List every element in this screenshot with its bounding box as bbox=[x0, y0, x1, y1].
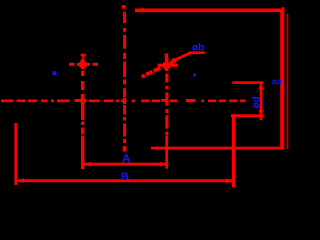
wire vertical line x=166.7 bbox=[165, 54, 169, 169]
wire dimension line A (y=163.3) bbox=[84, 163, 167, 166]
svg-text:B: B bbox=[121, 171, 129, 183]
wire thin vertical extension line bbox=[287, 14, 289, 150]
wire leader diagonal line bbox=[172, 52, 191, 63]
wire dim B right arrowhead bbox=[226, 178, 233, 183]
svg-text:aa: aa bbox=[272, 76, 283, 86]
wire dim A left arrowhead bbox=[84, 162, 91, 167]
wire extension line x=233 bbox=[232, 114, 236, 187]
wire leader shoulder bbox=[189, 51, 205, 54]
svg-text:A: A bbox=[122, 151, 131, 165]
wire diagonal dash-dot radial line bbox=[141, 66, 161, 78]
wire mid-right horizontal line bbox=[151, 147, 284, 150]
node tiny label mid bbox=[193, 74, 196, 77]
wire right vertical thick line bbox=[280, 9, 284, 149]
wire bracket top horizontal bbox=[232, 81, 263, 84]
wire top-left arrowhead bbox=[134, 8, 143, 12]
wire leader arrowhead at hole bbox=[168, 57, 177, 65]
wire dim B left arrowhead bbox=[17, 178, 24, 183]
svg-text:øb: øb bbox=[192, 43, 204, 54]
wire vertical dim up arrowhead bbox=[258, 82, 263, 90]
node hole center cross left (82.5,64.5) bbox=[69, 62, 98, 68]
wire bracket bottom horizontal bbox=[231, 114, 263, 117]
wire dimension line B (y=180.6) bbox=[17, 179, 232, 182]
wire top dimension line bbox=[135, 9, 284, 13]
wire extension line far-left x=15.8 bbox=[14, 123, 17, 185]
node tiny label left bbox=[53, 71, 57, 75]
wire mid-right horizontal left arrowhead bbox=[150, 146, 158, 150]
wire vertical line x=82.5 bbox=[81, 54, 86, 169]
node horizontal centerline y=100.6 bbox=[1, 99, 246, 102]
wire vertical dim down arrowhead bbox=[258, 110, 263, 116]
wire vertical dimension line x=261 bbox=[260, 81, 263, 120]
node hole center cross right (166.8,65.5) bbox=[158, 62, 179, 68]
node vertical centerline x=124.5 bbox=[122, 5, 127, 151]
svg-text:ød: ød bbox=[251, 96, 262, 108]
wire dim A right arrowhead bbox=[160, 162, 167, 167]
